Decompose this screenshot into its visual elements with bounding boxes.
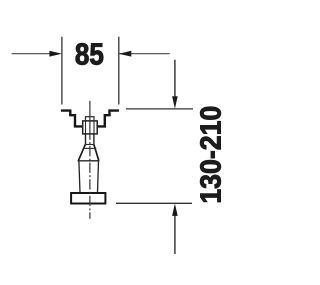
rod below nut left edge xyxy=(85,134,87,144)
bracket profile right (thick) xyxy=(97,111,119,127)
nut inner facet line left xyxy=(85,121,87,134)
arrowhead 130-210 bottom (points up) xyxy=(172,204,178,216)
nut inner facet line right xyxy=(93,121,95,134)
cone right side xyxy=(94,144,99,160)
dimension line 85 left segment xyxy=(12,53,51,55)
cylinder top line xyxy=(78,160,100,162)
rod top cap xyxy=(86,117,95,121)
center line solid top segment xyxy=(89,101,91,130)
rod below nut right edge xyxy=(93,134,95,144)
nut xyxy=(83,121,98,134)
cone shoulder line xyxy=(83,147,96,149)
dimension line 130-210 top segment xyxy=(174,60,176,97)
foot plate xyxy=(71,193,105,204)
extension line top (dim 130-210) xyxy=(126,108,193,110)
extension line bottom (dim 130-210) xyxy=(116,202,192,204)
cone top edge line xyxy=(85,144,93,146)
center line (dash-dot) xyxy=(89,129,91,218)
dimension line 130-210 bottom segment xyxy=(174,216,176,255)
arrowhead 85 left xyxy=(49,51,62,57)
svg-text:85: 85 xyxy=(75,38,104,73)
cylinder left side xyxy=(79,161,80,193)
cone left side xyxy=(78,144,85,160)
extension line right (dim 85) xyxy=(118,37,120,105)
arrowhead 85 right xyxy=(119,51,132,57)
cylinder right side xyxy=(98,161,99,193)
arrowhead 130-210 top (points down) xyxy=(172,96,178,109)
svg-text:130-210: 130-210 xyxy=(194,106,226,204)
dimension line 85 right segment xyxy=(119,53,170,55)
bracket profile left (thick) xyxy=(61,111,83,127)
extension line left (dim 85) xyxy=(61,37,63,105)
